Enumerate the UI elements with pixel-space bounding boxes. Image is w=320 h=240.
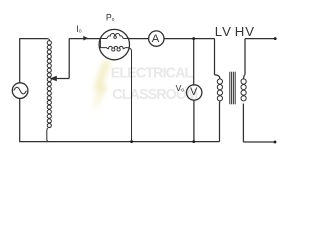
svg-text:V: V — [190, 86, 198, 98]
svg-text:A: A — [152, 33, 160, 45]
svg-text:CLASSROOM: CLASSROOM — [112, 87, 197, 103]
svg-text:ELECTRICAL: ELECTRICAL — [111, 66, 194, 82]
svg-text:LV: LV — [215, 24, 232, 39]
svg-text:HV: HV — [235, 24, 256, 39]
